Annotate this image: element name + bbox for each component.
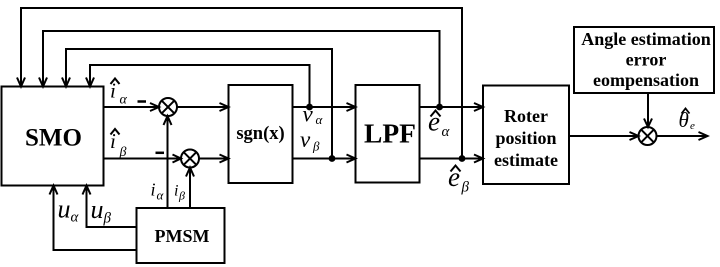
wire sgn(x) to LPF (beta) — [293, 155, 356, 163]
label e-hat beta — [448, 162, 470, 196]
svg-text:Angle estimation: Angle estimation — [581, 29, 711, 49]
label i_alpha — [151, 180, 165, 203]
block SMO — [2, 87, 104, 186]
svg-text:α: α — [157, 188, 165, 203]
svg-text:α: α — [71, 210, 80, 226]
svg-text:estimate: estimate — [494, 150, 558, 170]
svg-text:position: position — [495, 128, 556, 148]
svg-text:Roter: Roter — [504, 106, 548, 126]
svg-text:α: α — [442, 124, 451, 140]
svg-text:β: β — [103, 211, 112, 227]
svg-text:α: α — [316, 112, 324, 127]
wire M3 output theta — [657, 132, 708, 140]
svg-text:i: i — [174, 183, 178, 200]
svg-text:LPF: LPF — [364, 118, 416, 149]
svg-text:e: e — [690, 120, 695, 132]
node dot v_beta — [329, 155, 336, 162]
wire feedback v_alpha to SMO (top line 4) — [86, 65, 310, 107]
svg-text:u: u — [58, 195, 71, 224]
label minus alpha — [138, 100, 147, 103]
wire LPF to Roter (alpha) — [420, 103, 484, 111]
label u_alpha — [58, 195, 80, 226]
mixer M3 — [639, 127, 657, 145]
wire feedback v_beta to SMO (top line 3) — [62, 49, 332, 159]
node dot e_alpha — [436, 104, 443, 111]
wire sgn(x) to LPF (alpha) — [293, 103, 356, 111]
label v_alpha — [303, 102, 324, 128]
wire SMO to M1 (alpha) — [104, 103, 160, 111]
svg-text:i: i — [110, 129, 116, 153]
label i-hat alpha — [110, 79, 128, 108]
wire i_beta PMSM to M2 — [186, 168, 194, 209]
label theta-hat e — [679, 108, 696, 132]
svg-text:u: u — [91, 195, 104, 224]
wire M1 to sgn(x) (alpha) — [177, 103, 229, 111]
wire u_alpha PMSM to SMO — [50, 186, 137, 251]
block PMSM — [137, 208, 225, 263]
svg-text:error: error — [626, 50, 667, 70]
block sgn(x) — [229, 85, 293, 183]
svg-text:α: α — [120, 93, 128, 108]
svg-text:e: e — [448, 162, 460, 192]
mixer M2 — [181, 150, 199, 168]
svg-text:PMSM: PMSM — [155, 226, 210, 246]
wire feedback e_alpha to SMO (top line 2) — [39, 31, 440, 107]
svg-text:v: v — [300, 127, 311, 152]
svg-text:β: β — [312, 139, 320, 154]
svg-text:SMO: SMO — [25, 125, 82, 152]
wire Roter to M3 — [569, 132, 639, 140]
block LPF — [356, 85, 420, 183]
wire i_alpha PMSM to M1 — [164, 116, 172, 208]
svg-text:θ: θ — [679, 108, 689, 132]
node dot e_beta — [459, 155, 466, 162]
wire feedback e_beta to SMO (top line 1) — [17, 8, 462, 159]
svg-text:β: β — [461, 180, 470, 196]
svg-text:i: i — [110, 79, 116, 103]
svg-text:v: v — [303, 102, 314, 127]
label minus beta — [156, 152, 165, 155]
svg-text:β: β — [119, 145, 127, 160]
svg-text:β: β — [178, 189, 185, 203]
svg-text:e: e — [428, 107, 440, 137]
svg-text:i: i — [151, 180, 156, 200]
mixer M1 — [159, 98, 177, 116]
wire u_beta PMSM to SMO — [83, 186, 137, 228]
block Angle estimation error eompensation — [574, 27, 714, 93]
wire LPF to Roter (beta) — [420, 155, 484, 163]
label u_beta — [91, 195, 112, 227]
node dot v_alpha — [306, 104, 313, 111]
svg-text:eompensation: eompensation — [593, 70, 699, 90]
wire M2 to sgn(x) (beta) — [199, 155, 229, 163]
label i_beta — [174, 183, 185, 203]
svg-text:sgn(x): sgn(x) — [236, 124, 284, 144]
block Roter position estimate — [483, 86, 569, 185]
label i-hat beta — [110, 129, 127, 160]
label e-hat alpha — [428, 107, 451, 141]
label v_beta — [300, 127, 320, 154]
wire Angle block to M3 — [644, 93, 652, 127]
wire SMO to M2 (beta) — [104, 155, 182, 163]
